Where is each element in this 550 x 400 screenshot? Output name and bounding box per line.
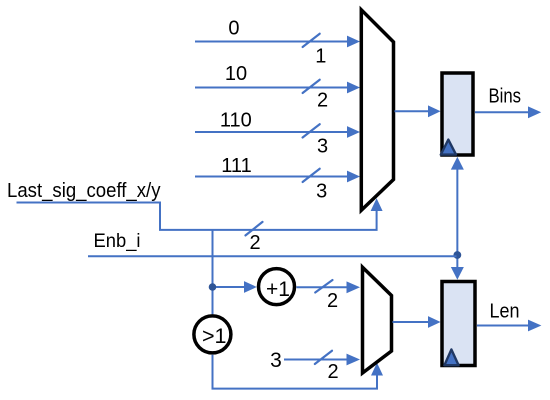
wire junction to +1: [216, 286, 245, 288]
comparator >1: [194, 316, 231, 353]
svg-text:3: 3: [270, 349, 282, 372]
mux U2 (bottom multiplexer): [363, 267, 392, 373]
svg-text:2: 2: [317, 89, 328, 111]
register Bins: [442, 73, 473, 155]
svg-text:2: 2: [249, 232, 260, 254]
wire Len output: [477, 325, 529, 327]
bus slash +1: [315, 280, 332, 293]
wire >1 to mux U2 select: [213, 355, 378, 389]
bus slash input 110: [303, 124, 320, 137]
junction node branch: [209, 283, 217, 291]
bus slash input 0: [303, 34, 320, 47]
wire input 0: [195, 41, 348, 43]
clock triangle Len register: [444, 350, 458, 366]
bus slash input 10: [303, 80, 320, 93]
bus slash input 111: [303, 169, 320, 182]
wire Bins output: [475, 111, 529, 113]
junction node Enb/clk: [453, 251, 461, 259]
wire Last_sig_coeff_x/y to mux U1 select: [17, 203, 377, 230]
wire input 10: [195, 87, 348, 89]
clock triangle Bins register: [441, 140, 456, 155]
register Len: [442, 282, 475, 366]
svg-text:111: 111: [221, 155, 251, 177]
svg-text:2: 2: [327, 290, 338, 312]
svg-text:110: 110: [220, 109, 252, 131]
svg-text:10: 10: [225, 63, 247, 85]
svg-text:+1: +1: [266, 278, 290, 301]
svg-text:Len: Len: [490, 301, 520, 323]
svg-text:3: 3: [317, 136, 328, 158]
wire Enb_i: [88, 255, 457, 257]
wire branch down from select to +1 and >1: [212, 230, 214, 314]
wire mux U2 output to Len register: [393, 321, 429, 323]
bus slash constant 3: [315, 351, 332, 364]
mux U1 (top multiplexer): [361, 10, 393, 211]
wire input 110: [195, 131, 348, 133]
svg-text:1: 1: [315, 45, 326, 67]
svg-text:2: 2: [327, 361, 338, 383]
svg-text:Last_sig_coeff_x/y: Last_sig_coeff_x/y: [7, 180, 161, 202]
svg-text:Enb_i: Enb_i: [94, 230, 141, 252]
wire mux U1 output to Bins register: [395, 110, 429, 112]
svg-text:Bins: Bins: [489, 86, 522, 108]
svg-text:3: 3: [316, 180, 327, 202]
bus slash select: [246, 222, 263, 236]
wire enable vertical (Bins clk to Len clk): [456, 169, 458, 268]
svg-text:0: 0: [228, 17, 239, 39]
wire constant 3 to mux U2: [284, 359, 347, 361]
wire input 111: [195, 176, 348, 178]
wire +1 to mux U2: [296, 286, 347, 288]
incrementer +1: [259, 269, 295, 305]
svg-text:>1: >1: [202, 324, 227, 348]
